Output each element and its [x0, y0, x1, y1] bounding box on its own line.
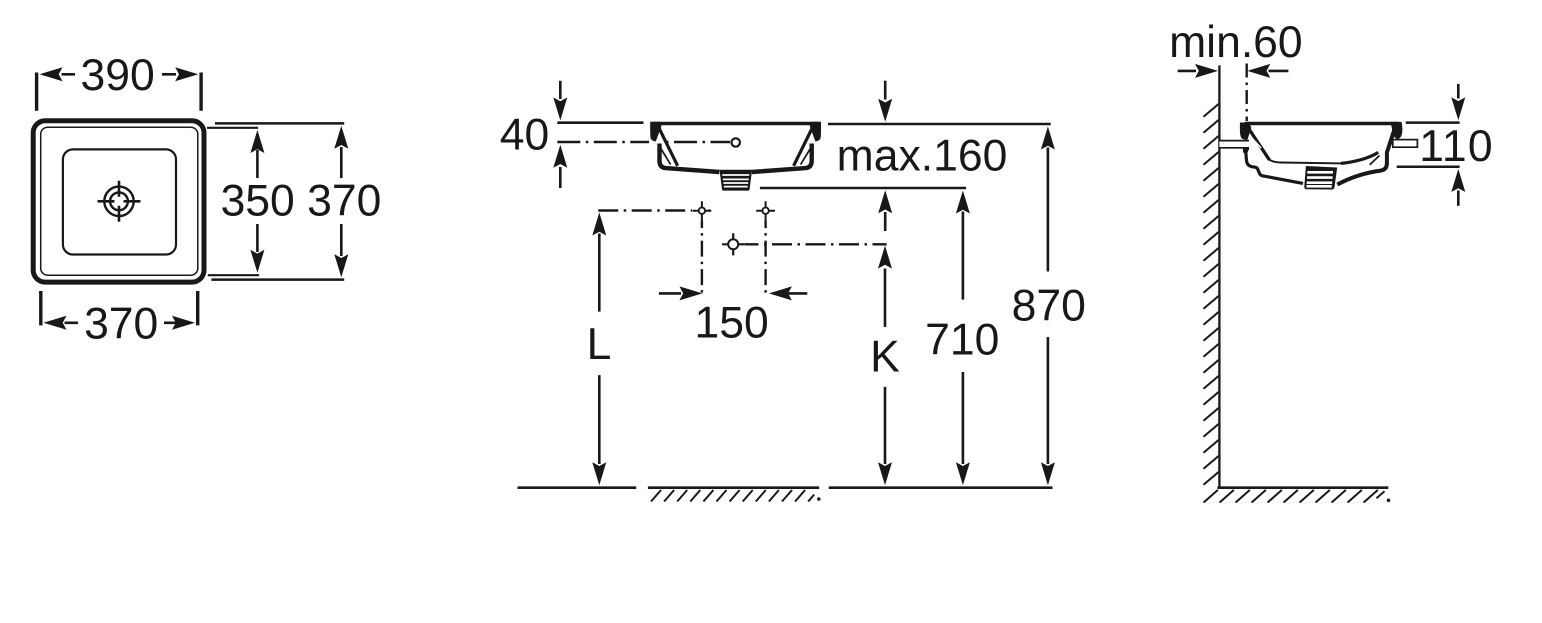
- hole axis dash-dot horizontal (upper): [598, 209, 692, 211]
- extension line bottom rim (350 dim): [208, 274, 259, 276]
- basin inner bowl: [63, 149, 176, 254]
- front drain boss: [720, 170, 753, 191]
- side basin left outer shell: [1245, 147, 1303, 184]
- dim 110 bottom extension line: [1397, 165, 1460, 168]
- faucet axis dash-dot line: [557, 141, 649, 143]
- dim 150 left arrow: [659, 292, 681, 295]
- extension line bottom outer (370 right dim): [211, 278, 344, 281]
- dim 370 bottom line + arrows: [65, 321, 179, 324]
- front basin right inner thin line: [801, 145, 813, 165]
- svg-text:390: 390: [80, 51, 154, 100]
- wall hatching: [1204, 104, 1219, 485]
- side basin left wedge lower part: [1243, 149, 1249, 155]
- left hole vertical dash-dot: [701, 220, 703, 295]
- front basin right outer wall and bottom: [752, 144, 812, 173]
- side basin bowl bottom inner line: [1267, 158, 1343, 163]
- 110 up arrow: [1457, 191, 1460, 206]
- front drain boss thread stripes: [722, 175, 749, 187]
- side basin left slant white sliver: [1253, 139, 1262, 148]
- max160 down arrow: [884, 81, 887, 100]
- 40 dim up arrow: [559, 167, 562, 188]
- right floor hatching: [1204, 490, 1385, 503]
- dim 370 right vertical line + arrows: [340, 147, 343, 256]
- right mounting hole symbol: [756, 201, 775, 220]
- basin outer rounded square: [33, 121, 204, 282]
- front basin right rim wedge: [810, 122, 821, 142]
- svg-text:150: 150: [694, 298, 768, 347]
- svg-text:870: 870: [1012, 282, 1086, 331]
- right floor hatch end dot: [1387, 499, 1391, 503]
- 870 dimension line: [1047, 148, 1050, 465]
- svg-text:min.60: min.60: [1169, 18, 1303, 67]
- 40 dim top reference line: [557, 121, 643, 124]
- side basin right rim wedge: [1391, 122, 1403, 139]
- side basin left rim wedge: [1240, 123, 1251, 140]
- side basin bowl inner rise to right wall: [1341, 152, 1378, 163]
- faucet hole circle: [732, 138, 740, 146]
- floor line segments: [518, 486, 637, 489]
- min60 left arrow (points right at wall): [1178, 70, 1196, 73]
- dim 150 right arrow: [785, 292, 807, 295]
- wall line: [1218, 65, 1220, 487]
- svg-text:K: K: [870, 333, 900, 382]
- basin rim thin line: [41, 127, 198, 275]
- svg-text:350 370: 350 370: [221, 177, 382, 226]
- front basin left inner thin line: [659, 145, 671, 165]
- front basin left rim wedge: [650, 122, 661, 142]
- extension line top rim (350 dim): [207, 127, 258, 129]
- K dimension line: [884, 269, 887, 465]
- top right extension line (870/max160): [828, 123, 1051, 126]
- dim 110 top extension line: [1406, 121, 1460, 124]
- left mounting hole symbol: [693, 201, 712, 220]
- floor hatch end dot: [817, 497, 821, 501]
- svg-text:40: 40: [500, 111, 550, 160]
- 110 down arrow: [1457, 84, 1460, 99]
- drain crosshair ticks: [98, 181, 141, 222]
- max.160 lower reference line: [760, 187, 966, 190]
- mounting bolt: [1219, 141, 1249, 148]
- front basin left outer wall and bottom: [660, 144, 720, 173]
- tap ledge tab: [1393, 140, 1418, 148]
- svg-text:370: 370: [84, 299, 158, 348]
- side basin right thin line: [1370, 156, 1380, 165]
- svg-text:L: L: [587, 320, 612, 369]
- svg-text:110: 110: [1419, 122, 1494, 171]
- right hole vertical dash-dot: [764, 220, 766, 294]
- drain crosshair circles: [104, 187, 133, 216]
- svg-text:max.160: max.160: [837, 131, 1008, 180]
- side basin left inner wall slant: [1247, 127, 1269, 160]
- dim 370 bottom extension ticks: [41, 291, 198, 325]
- side drain boss thread stripes: [1307, 172, 1334, 186]
- right floor line: [1217, 486, 1388, 489]
- front basin top rim: [653, 122, 818, 126]
- extension line top outer (370 right dim): [215, 122, 344, 125]
- 710 dimension line: [962, 212, 965, 465]
- dim 350 vertical line + arrows: [256, 150, 259, 252]
- svg-text:710: 710: [925, 316, 999, 365]
- min60 right arrow (points left at axis): [1269, 70, 1289, 73]
- side basin right outer wall and corner: [1337, 125, 1396, 184]
- side drain boss: [1304, 166, 1337, 190]
- hole axis dash-dot horizontal (center): [745, 243, 887, 245]
- 40 dim down arrow: [559, 81, 562, 99]
- mounting axis dash-dot vertical: [1245, 64, 1247, 122]
- dim 390 extension ticks: [37, 73, 202, 111]
- L dimension line: [598, 234, 601, 465]
- dim 390 line + arrows: [62, 73, 177, 76]
- max160 up arrow: [884, 212, 887, 231]
- center hole symbol: [722, 233, 744, 255]
- front basin left inner wall: [658, 126, 678, 166]
- side basin top rim: [1245, 122, 1399, 126]
- floor hatching (middle): [651, 490, 814, 502]
- front basin right inner wall: [794, 126, 814, 166]
